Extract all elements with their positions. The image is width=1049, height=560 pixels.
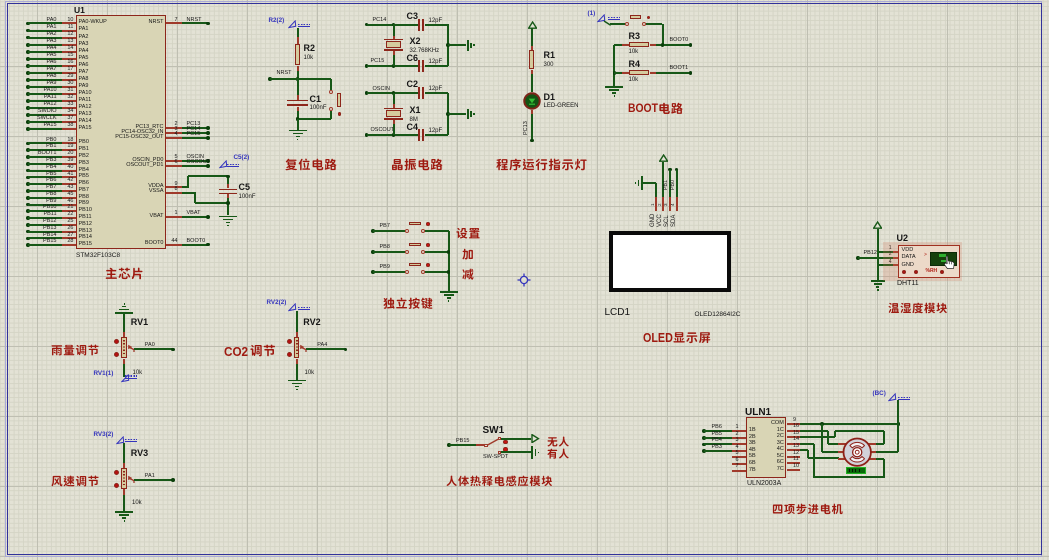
wire right side vertical [447,24,449,66]
U1 pin 4 PC15-OSC32_OUT [166,134,168,136]
RV3 reference label [131,449,148,459]
net label PC13 (vertical) [524,121,530,135]
ULN1 value ULN2003A [747,480,781,488]
resistor R3 10k [614,44,622,46]
label CO2调节 [224,345,248,358]
U1 pin 16 PA6 wire/net PA6 [26,64,30,68]
U1 pin 5 OSCIN_PD0 [166,157,168,159]
ground above RV1 (inverted) [124,303,126,305]
label 加 [462,248,476,263]
wire PB3 to ULN1 [702,449,706,453]
RV3 value 10k [132,500,142,506]
U1 pin 34 PA13 wire/net SWDIO [26,113,30,117]
LCD1 value OLED12864I2C [695,311,741,318]
stepper motor body [842,437,872,467]
wire label to RV3 [123,443,125,463]
U1 pin 30 PA9 wire/net PA9 [26,85,30,89]
RV2 reference label [303,318,320,328]
capacitor C3 12pF [418,19,420,31]
wire from label to R2 [297,28,299,37]
U1 pin 14 PA4 wire/net PA4 [26,50,30,54]
cursor hand icon [941,255,957,271]
U1 pin 1 VBAT [166,213,168,215]
RV2 value 10k [305,370,315,376]
wire 3C to motor right-bottom [800,443,814,445]
capacitor C4 12pF [418,129,420,141]
U1 pin 44 BOOT0 [166,240,168,242]
U1 pin 29 PA8 wire/net PA8 [26,78,30,82]
label 复位电路 [285,158,339,174]
U1 pin 33 PA12 wire/net PA12 [26,106,30,110]
switch SW1 SW-SPDT [476,444,484,446]
U1 pin 38 PA15 wire/net PA15 [26,127,30,131]
U1 pin 8 VSSA [166,188,168,190]
label 温湿度模块 [888,302,950,316]
U1 pin 46 PB9 wire/net PB9 [26,203,30,207]
wire PB12 to DATA pin [856,256,860,260]
U2 DHT11 highlight halo [883,242,962,282]
label 风速调节 [51,475,102,489]
LCD1 OLED display body [609,231,731,292]
ground (RV3) [115,511,133,513]
wire button to C1 bottom [330,111,332,119]
U1 pin 43 PB7 wire/net PB7 [26,189,30,193]
ULN1 body [746,417,786,478]
LED D1 LED-GREEN [523,92,541,110]
LCD1 pin names GND VCC SCL SDA (vertical) [650,213,656,226]
U1 value STM32F103C8 [76,252,120,259]
U1 pin 37 PA14 wire/net SWCLK [26,120,30,124]
ground (keys) [440,291,458,293]
wire 4C to motor left-bottom [800,449,808,451]
U1 pin 32 PA11 wire/net PA11 [26,99,30,103]
wire VDDA to C5 [182,186,188,188]
wire right side vertical [447,93,449,135]
U1 pin 9 VDDA [166,183,168,185]
wire COM to motor right-centre [897,424,899,452]
label BOOT电路 [628,102,658,114]
wire to reset button [330,79,332,90]
RV1 bottom wire and label RV1(1) [123,359,125,364]
wire PC15 [365,64,369,68]
U2 pin numbers 1 2 4 [884,246,892,251]
power arrow (LED supply) [528,21,537,29]
wire label (BC) pointer [873,391,886,398]
wire R3-R4 left vertical [613,45,615,86]
label 程序运行指示灯 [496,158,590,174]
U1 pin 45 PB8 wire/net PB8 [26,196,30,200]
RV1 value 10k [133,370,143,376]
micro-controller U1 body [76,15,166,249]
wire SCL to PB1 [668,168,672,172]
origin marker (blue crosshair) [517,273,531,287]
label 主芯片 [105,267,146,283]
ground (sideways, person) [531,446,533,459]
U2 DHT11 body [898,245,960,278]
wire GND pin [878,264,893,266]
stepper indicator display [846,467,866,474]
power arrow (DHT11) [873,221,882,229]
RV1 reference label [131,318,148,328]
U1 pin 39 PB3 wire/net PB3 [26,162,30,166]
wire VSSA to C5 [182,192,195,194]
push-button key PB7 [371,229,375,233]
potentiometer RV2 10k body [294,337,299,358]
power arrow (OLED VCC) [659,154,668,162]
U1 pin 7 NRST [166,19,168,21]
U1 pin 17 PA7 wire/net PA7 [26,71,30,75]
capacitor C5 100nF [227,176,229,184]
label 雨量调节 [51,344,102,358]
U1 pin 2 PC13_RTC [166,124,168,126]
wire button to BOOT0 net [646,23,662,25]
wire label RV2(2) pointer [267,300,287,307]
label 有人 [547,448,572,462]
RV1 wiper to net PA0 [127,344,137,356]
wire label to RV2 [296,311,298,332]
wire 1C to motor left-top [800,430,828,432]
wire D1 to PC13 net [531,110,533,114]
wire power/ground vertical (DHT11) [877,229,879,280]
LCD1 reference label [605,308,631,319]
node NRST junction [296,77,300,81]
U1 pin 21 PB10 wire/net PB10 [26,209,30,213]
capacitor C6 12pF [418,60,420,72]
ground (OLED, sideways) [641,176,643,189]
label 人体热释电感应模块 [446,475,555,489]
U1 pin 42 PB6 wire/net PB6 [26,182,30,186]
ULN1 right pins [787,423,800,425]
U1 pin 11 PA1 wire/net PA1 [26,29,30,33]
wire to boot button [603,20,613,27]
ground (DHT11) [871,280,885,282]
potentiometer RV1 10k body [121,337,126,358]
U1 pin 6 OSCOUT_PD1 [166,162,168,164]
label 减 [462,268,476,283]
label 晶振电路 [391,158,445,174]
wire COM to motor left-centre [821,424,823,452]
capacitor C2 12pF [418,87,420,99]
label 独立按键 [383,297,435,312]
RV3 wiper to net PA1 [127,475,137,487]
U1 pin 22 PB11 wire/net PB11 [26,216,30,220]
wire ground to RV1 [123,314,125,332]
U1 pin 28 PB15 wire/net PB15 [26,243,30,247]
wire PB15 to SW1 [447,443,451,447]
ground (reset) [289,130,307,132]
U2 pin names VDD DATA GND [902,247,914,253]
label 四项步进电机 [772,503,845,517]
SW1 reference label [483,426,505,437]
wire OSCOUT [365,133,369,137]
ULN1 reference label [745,408,771,419]
U1 pin 3 PC14-OSC32_IN [166,129,168,131]
ground (RV2) [288,380,306,382]
U2 indicator dots and %RH [902,270,906,274]
U1 pin 25 PB12 wire/net PB12 [26,223,30,227]
RV2 wiper to net PA4 [299,344,309,356]
U1 reference label [74,6,85,15]
capacitor C1 100nF [297,79,299,95]
U1 pin 40 PB4 wire/net PB4 [26,169,30,173]
wire label C5(2) pointer [219,160,228,169]
LCD1 pin stubs [655,197,657,211]
wire R2 to NRST node [297,66,299,71]
wire throw2 to ground [501,451,531,453]
U1 pin 26 PB13 wire/net PB13 [26,230,30,234]
U2 reference label [897,234,909,244]
U1 pin 31 PA10 wire/net PA10 [26,92,30,96]
wire GND pin of OLED [642,182,656,184]
resistor R4 10k [614,72,622,74]
ground (BOOT) [605,86,623,88]
potentiometer RV3 10k body [121,468,126,489]
RV3 bottom wire to ground [123,489,125,495]
RV2 bottom wire to ground [296,359,298,364]
crystal X1 8M [393,93,395,104]
ULN1 left input pins [732,430,746,432]
U2 display window [930,252,957,266]
wire key common bus [448,231,450,291]
wire OSCIN [365,91,369,95]
wire COM rail [800,423,898,425]
wire 2C to motor right-top [800,436,835,438]
wire label (1) pointer [588,11,596,18]
push-button key PB9 [371,270,375,274]
wire VDD pin [878,251,893,253]
resistor R2 10k [295,44,300,66]
wire C1 to ground [297,119,299,130]
resistor R1 300 [531,46,533,50]
push-button boot [625,22,629,26]
net BOOT0 label [670,38,689,44]
push-button key PB8 [371,250,375,254]
wire SDA to PB0 [675,168,679,172]
wire PC14 [365,23,369,27]
U1 pin 20 PB2 wire/net BOOT1 [26,155,30,159]
wire PB6 to ULN1 [702,429,706,433]
label 无人 [547,436,572,450]
wire label RV3(2) pointer [94,432,114,439]
wire PB5 to ULN1 [702,436,706,440]
U1 pin 41 PB5 wire/net PB5 [26,176,30,180]
U1 pin 15 PA5 wire/net PA5 [26,57,30,61]
net BOOT1 label [670,66,689,72]
ground (sideways) [467,109,469,120]
ground below C5 [219,216,237,218]
crystal X2 32.768KHz [393,24,395,36]
U1 pin 13 PA3 wire/net PA3 [26,43,30,47]
U1 pin 12 PA2 wire/net PA2 [26,36,30,40]
U1 pin 19 PB1 wire/net PB1 [26,148,30,152]
wire PB4 to ULN1 [702,443,706,447]
wire NRST horizontal [268,77,272,81]
U1 pin 10 PA0-WKUP wire/net PA0 [26,22,30,26]
wire throw1 to power arrow [501,438,531,440]
push-button reset (vertical) [329,90,333,94]
wire label R2(2) pointer [269,18,285,25]
label OLED显示屏 [643,332,673,345]
label 设置 [456,227,483,242]
U2 value DHT11 [897,280,919,288]
U1 pin 18 PB0 wire/net PB0 [26,142,30,146]
stepper motor terminals (red stubs) [838,443,848,445]
ground (sideways) [467,40,469,51]
U1 pin 27 PB14 wire/net PB14 [26,237,30,241]
wire R1 to D1 [531,74,533,92]
power arrow (no person) [531,434,540,443]
